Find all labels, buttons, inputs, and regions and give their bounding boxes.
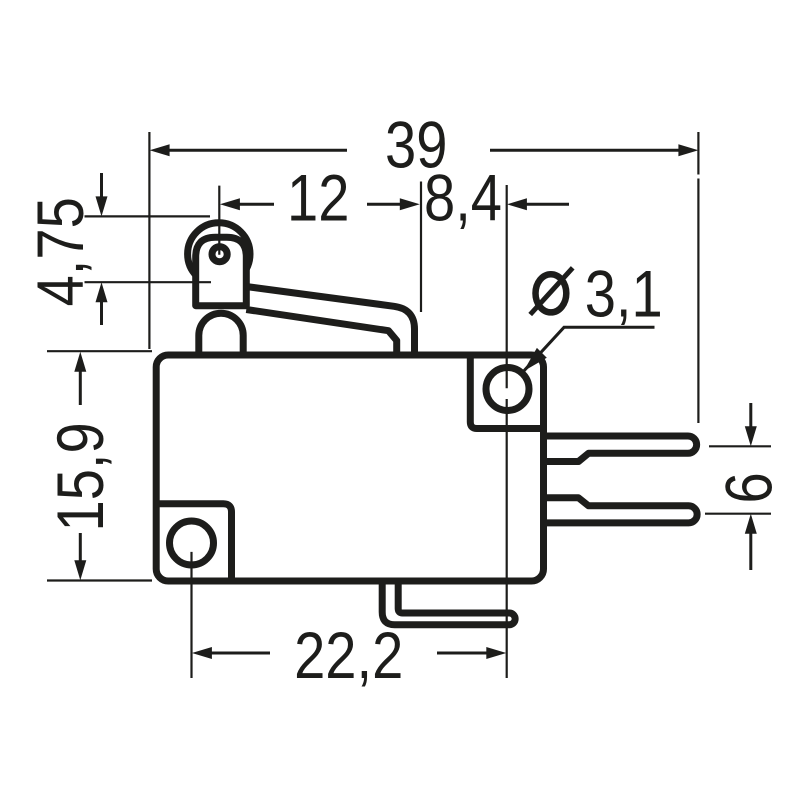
extension line lever end (420, 182, 422, 313)
arrowhead 6 top (745, 426, 757, 446)
extension/center line roller (218, 186, 220, 255)
dimension line 22,2 (208, 652, 489, 655)
leader line diameter 3,1 (524, 327, 655, 371)
extension/center line hole top-right (506, 185, 508, 678)
mounting pad top-right (470, 358, 547, 429)
mounting hole top-right (486, 368, 529, 411)
dimension line 8,4 (523, 203, 569, 206)
terminal pin 2 (lower right) (547, 498, 697, 523)
extension lines 6 (705, 446, 771, 513)
mounting pad bottom-left (156, 504, 232, 581)
svg-text:22,2: 22,2 (294, 619, 403, 692)
extension line 39 right (697, 132, 699, 423)
roller pin (212, 247, 227, 262)
mounting hole bottom-left (170, 521, 214, 565)
terminal pin 3 (bottom, bent) (382, 584, 515, 625)
roller wheel (188, 223, 250, 285)
arrowhead 15,9 top (74, 352, 86, 372)
svg-text:12: 12 (287, 161, 349, 234)
arrowhead 4,75 bottom (96, 282, 108, 302)
switch body outline (156, 355, 543, 581)
arrowhead 39 right (678, 144, 698, 156)
arrowhead 15,9 bottom (74, 560, 86, 580)
extension line 39 left (148, 132, 150, 349)
svg-text:15,9: 15,9 (44, 422, 117, 531)
extension lines 4,75 (85, 216, 212, 282)
arrowhead 39 left (150, 144, 170, 156)
arrowhead leader 3,1 (524, 348, 547, 371)
arrowhead 6 bottom (745, 514, 757, 534)
svg-text:4,75: 4,75 (24, 197, 97, 306)
svg-text:6: 6 (712, 472, 785, 503)
terminal pin 1 (upper right) (547, 436, 697, 462)
dimension line 15,9 (79, 371, 82, 561)
dimension line 39 (166, 149, 681, 152)
arrowhead 12 left (220, 198, 240, 210)
lever arm upper edge (246, 287, 415, 353)
extension lines 15,9 (47, 351, 152, 580)
plunger (199, 313, 243, 358)
svg-text:3,1: 3,1 (585, 257, 663, 330)
roller holder block (196, 237, 247, 305)
extension/center line hole bottom-left (190, 552, 192, 678)
diameter symbol of 3,1 (536, 274, 567, 312)
dimension line 12 (236, 203, 403, 206)
svg-text:8,4: 8,4 (424, 161, 502, 234)
arrowhead 22,2 left (192, 647, 212, 659)
arrowhead 4,75 top (96, 196, 108, 216)
dimension line 6 (749, 403, 752, 570)
arrowhead 22,2 right (486, 647, 506, 659)
dimension line 4,75 (100, 173, 103, 325)
lever arm lower edge (246, 310, 396, 353)
arrowhead 8,4 (507, 198, 527, 210)
arrowhead 12 right (400, 198, 420, 210)
